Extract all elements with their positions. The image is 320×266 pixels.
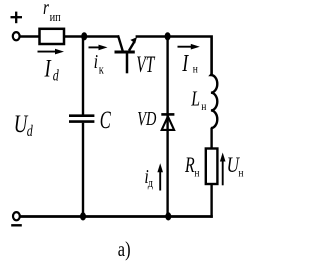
svg-text:VD: VD: [137, 106, 156, 129]
svg-text:r: r: [43, 0, 50, 19]
minus polarity underline: [11, 224, 22, 226]
capacitor C plates: [69, 116, 94, 122]
resistor r_ip box: [40, 29, 65, 44]
svg-text:н: н: [193, 62, 198, 75]
svg-text:C: C: [100, 106, 112, 134]
negative input terminal: [13, 212, 20, 220]
junction node (top of capacitor branch): [81, 32, 87, 40]
svg-text:d: d: [27, 122, 34, 140]
wire terminal to resistor: [20, 35, 40, 37]
junction node (diode bottom): [165, 212, 171, 220]
transistor VT emitter diagonal with arrowhead: [129, 37, 137, 50]
arrow I_d: [38, 49, 65, 55]
svg-text:L: L: [190, 87, 200, 111]
diode VD cathode bar: [161, 113, 174, 116]
svg-text:R: R: [184, 154, 195, 178]
svg-text:I: I: [181, 50, 189, 77]
inductor L_n coil: [211, 74, 217, 128]
plus polarity mark: [11, 12, 23, 24]
capacitor branch lower wire: [82, 123, 84, 217]
svg-text:д: д: [148, 176, 153, 190]
svg-text:а): а): [118, 238, 131, 261]
transistor VT base lead: [126, 52, 129, 73]
svg-text:VT: VT: [136, 53, 156, 78]
svg-text:I: I: [44, 54, 52, 82]
diode branch wire: [166, 37, 168, 217]
svg-text:i: i: [94, 50, 98, 72]
arrow i_k: [89, 45, 108, 51]
svg-text:ип: ип: [50, 10, 62, 24]
wire resistor to transistor: [64, 35, 119, 38]
transistor VT collector diagonal: [118, 35, 123, 51]
wire inductor to resistor R_n: [210, 128, 212, 149]
resistor R_n box: [206, 149, 218, 185]
positive input terminal: [13, 32, 20, 40]
arrow i_d (diode current): [157, 163, 163, 190]
wire R_n to bottom rail: [210, 184, 212, 218]
svg-text:н: н: [201, 100, 206, 113]
svg-text:к: к: [99, 62, 104, 76]
transistor VT base bar: [115, 51, 135, 54]
svg-text:н: н: [238, 167, 243, 180]
diode VD triangle: [162, 116, 174, 129]
capacitor branch upper wire: [82, 37, 84, 115]
bottom rail: [20, 215, 213, 218]
junction node (capacitor bottom): [80, 212, 86, 220]
arrow U_n: [220, 153, 226, 186]
top wire transistor to right corner, down to inductor: [136, 37, 212, 76]
svg-text:d: d: [53, 67, 60, 85]
junction node (top of diode branch): [165, 32, 171, 40]
arrow I_n: [178, 44, 200, 50]
svg-text:н: н: [194, 167, 199, 180]
